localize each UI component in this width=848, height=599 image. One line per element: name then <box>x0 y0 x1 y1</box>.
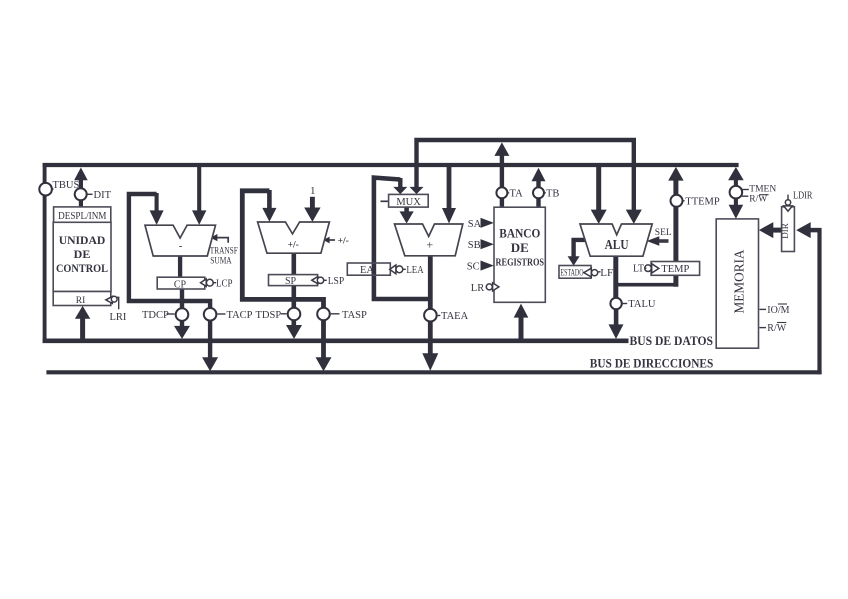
svg-text:TDCP: TDCP <box>142 310 169 321</box>
svg-text:DE: DE <box>74 247 91 261</box>
svg-text:1: 1 <box>310 185 316 197</box>
svg-text:LT: LT <box>633 263 645 274</box>
svg-text:+: + <box>426 238 433 252</box>
svg-text:SEL: SEL <box>655 228 672 238</box>
svg-text:+/-: +/- <box>288 241 299 251</box>
svg-text:BANCO: BANCO <box>499 227 540 241</box>
svg-text:+/-: +/- <box>338 237 349 247</box>
svg-text:DIR: DIR <box>780 223 790 239</box>
svg-text:LEA: LEA <box>406 265 424 276</box>
svg-text:UNIDAD: UNIDAD <box>59 233 106 247</box>
svg-text:DIT: DIT <box>94 190 112 201</box>
svg-text:BUS DE DATOS: BUS DE DATOS <box>630 333 714 348</box>
svg-text:REGISTROS: REGISTROS <box>496 257 545 269</box>
svg-text:LCP: LCP <box>216 278 233 289</box>
svg-text:LRI: LRI <box>110 312 127 323</box>
svg-text:BUS DE DIRECCIONES: BUS DE DIRECCIONES <box>590 356 714 371</box>
svg-text:TA: TA <box>510 189 524 200</box>
svg-text:SC: SC <box>467 262 480 273</box>
svg-text:LR: LR <box>471 283 484 294</box>
svg-text:LDIR: LDIR <box>793 190 813 201</box>
svg-text:RI: RI <box>76 296 86 306</box>
svg-text:TACP: TACP <box>227 310 253 321</box>
svg-text:TALU: TALU <box>628 299 656 310</box>
svg-text:EA: EA <box>360 265 374 276</box>
svg-text:LF: LF <box>600 267 613 279</box>
svg-text:TEMP: TEMP <box>661 264 689 275</box>
svg-text:ESTADO: ESTADO <box>561 267 584 277</box>
svg-text:DE: DE <box>511 240 529 255</box>
svg-text:TDSP: TDSP <box>256 310 282 321</box>
svg-text:CP: CP <box>174 279 187 290</box>
svg-text:TASP: TASP <box>342 310 367 321</box>
svg-text:TAEA: TAEA <box>441 311 469 322</box>
svg-text:MEMORIA: MEMORIA <box>733 249 748 314</box>
svg-text:R/W: R/W <box>767 323 786 334</box>
svg-text:R/W: R/W <box>749 194 767 204</box>
svg-text:TBUS: TBUS <box>53 180 80 191</box>
svg-text:TRANSF: TRANSF <box>210 246 238 256</box>
svg-text:SUMA: SUMA <box>210 255 232 265</box>
svg-text:IO/M: IO/M <box>767 305 789 316</box>
svg-text:ALU: ALU <box>605 237 629 252</box>
svg-text:TB: TB <box>546 189 559 200</box>
svg-text:DESPL/INM: DESPL/INM <box>58 211 106 222</box>
svg-text:SB: SB <box>468 240 481 251</box>
svg-text:TMEN: TMEN <box>749 185 776 195</box>
svg-text:TTEMP: TTEMP <box>685 197 720 208</box>
svg-text:CONTROL: CONTROL <box>56 261 108 275</box>
svg-text:-: - <box>179 241 182 252</box>
svg-text:SA: SA <box>468 219 482 230</box>
svg-text:SP: SP <box>285 276 297 287</box>
svg-text:LSP: LSP <box>328 276 345 287</box>
svg-text:MUX: MUX <box>396 197 421 208</box>
